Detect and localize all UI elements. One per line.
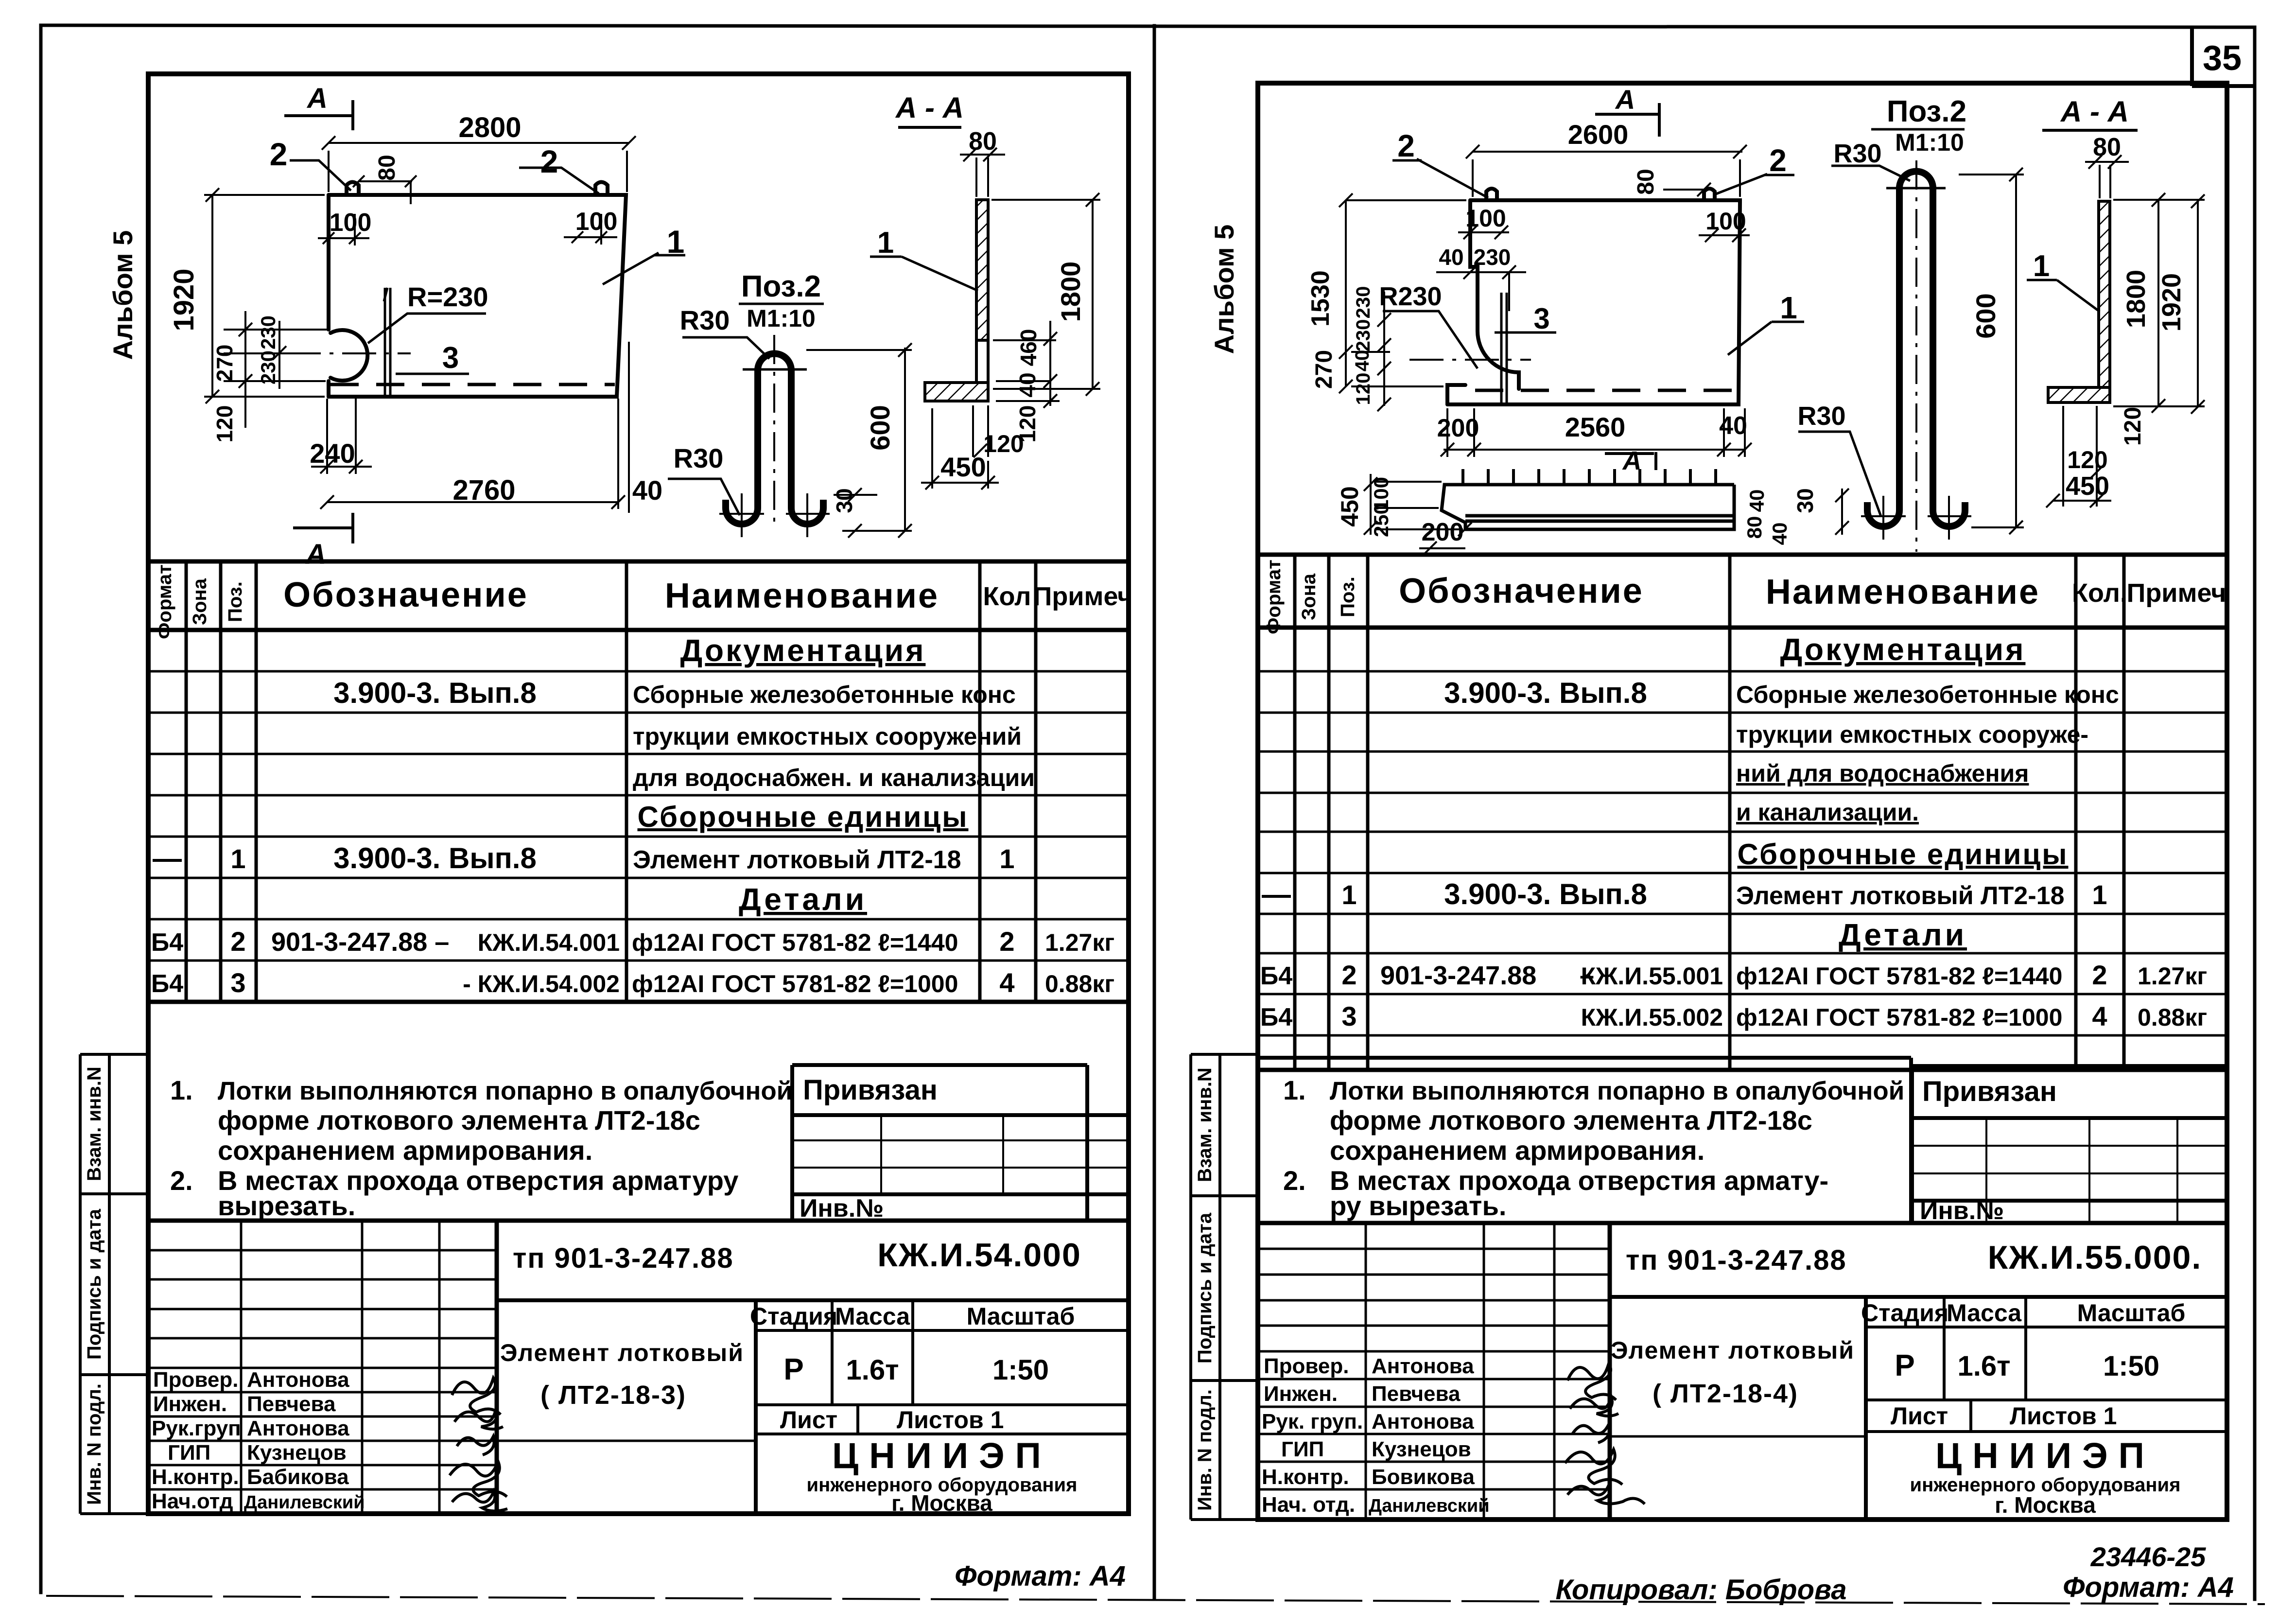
svg-text:и канализации.: и канализации. — [1736, 799, 1919, 826]
svg-text:40: 40 — [1745, 489, 1768, 512]
svg-text:2: 2 — [540, 143, 558, 179]
svg-text:Поз.2: Поз.2 — [741, 270, 821, 303]
svg-text:1.6т: 1.6т — [1957, 1350, 2010, 1382]
svg-text:230: 230 — [1353, 319, 1374, 352]
svg-text:80: 80 — [1633, 169, 1659, 194]
svg-text:форме лоткового элемента ЛТ2-: форме лоткового элемента ЛТ2-18с — [218, 1105, 700, 1136]
svg-text:Обозначение: Обозначение — [283, 576, 528, 614]
svg-text:ф12АI ГОСТ 5781-82 ℓ=1440: ф12АI ГОСТ 5781-82 ℓ=1440 — [632, 929, 958, 956]
svg-text:R30: R30 — [1797, 402, 1845, 431]
svg-text:ЦНИИЭП: ЦНИИЭП — [832, 1435, 1052, 1476]
svg-text:Певчева: Певчева — [1372, 1382, 1461, 1406]
svg-text:г. Москва: г. Москва — [1995, 1492, 2096, 1518]
svg-text:1: 1 — [877, 226, 894, 260]
svg-text:Б4: Б4 — [151, 970, 183, 998]
svg-text:0.88кг: 0.88кг — [2138, 1004, 2207, 1031]
svg-text:240: 240 — [310, 438, 355, 469]
svg-text:сохранением армирования.: сохранением армирования. — [1330, 1135, 1705, 1166]
svg-text:Поз.2: Поз.2 — [1887, 95, 1966, 128]
svg-text:( ЛТ2-18-4): ( ЛТ2-18-4) — [1652, 1379, 1798, 1408]
svg-text:ф12АI ГОСТ 5781-82 ℓ=1000: ф12АI ГОСТ 5781-82 ℓ=1000 — [1736, 1004, 2062, 1031]
svg-text:Бабикова: Бабикова — [247, 1465, 349, 1489]
svg-text:Взам. инв.N: Взам. инв.N — [1194, 1067, 1216, 1182]
svg-text:1: 1 — [1780, 290, 1797, 325]
svg-text:трукции емкостных сооружений: трукции емкостных сооружений — [633, 723, 1022, 750]
svg-text:- КЖ.И.54.002: - КЖ.И.54.002 — [463, 970, 620, 997]
svg-text:—: — — [1262, 878, 1291, 910]
svg-text:Элемент лотковый ЛТ2-18: Элемент лотковый ЛТ2-18 — [633, 846, 961, 874]
svg-text:Подпись и дата: Подпись и дата — [1194, 1212, 1216, 1363]
svg-text:1.: 1. — [1283, 1075, 1306, 1105]
svg-text:Стадия: Стадия — [1861, 1299, 1948, 1327]
svg-text:1:50: 1:50 — [2103, 1350, 2159, 1382]
svg-text:Зона: Зона — [1298, 573, 1320, 620]
svg-text:Кузнецов: Кузнецов — [247, 1441, 347, 1465]
svg-text:2.: 2. — [170, 1165, 193, 1196]
svg-text:ру вырезать.: ру вырезать. — [1330, 1190, 1506, 1221]
svg-text:Поз.: Поз. — [225, 581, 246, 622]
svg-text:Сборные железобетонные конс: Сборные железобетонные конс — [1736, 681, 2119, 708]
svg-text:Поз.: Поз. — [1337, 577, 1358, 617]
svg-text:г. Москва: г. Москва — [891, 1490, 992, 1516]
svg-text:2600: 2600 — [1568, 119, 1629, 150]
svg-text:R=230: R=230 — [407, 281, 488, 312]
svg-text:Зона: Зона — [189, 578, 210, 625]
svg-text:460: 460 — [1016, 329, 1041, 367]
svg-text:1.27кг: 1.27кг — [2138, 962, 2207, 990]
svg-text:230: 230 — [1474, 245, 1511, 270]
svg-text:Документация: Документация — [1780, 632, 2026, 667]
svg-text:Обозначение: Обозначение — [1399, 572, 1644, 611]
svg-text:Наименование: Наименование — [665, 577, 939, 615]
svg-text:( ЛТ2-18-3): ( ЛТ2-18-3) — [540, 1381, 686, 1410]
svg-text:1920: 1920 — [168, 268, 200, 331]
svg-text:ний для водоснабжения: ний для водоснабжения — [1736, 760, 2029, 787]
svg-text:1800: 1800 — [1055, 262, 1086, 322]
svg-text:2: 2 — [270, 136, 288, 172]
svg-text:А: А — [305, 539, 326, 570]
svg-text:Данилевский: Данилевский — [244, 1492, 365, 1513]
svg-text:600: 600 — [1970, 293, 2001, 338]
svg-text:3.900-3. Вып.8: 3.900-3. Вып.8 — [1444, 677, 1647, 709]
svg-text:Наименование: Наименование — [1766, 573, 2040, 612]
svg-text:120: 120 — [2120, 407, 2146, 446]
svg-text:ф12АI ГОСТ 5781-82 ℓ=1000: ф12АI ГОСТ 5781-82 ℓ=1000 — [632, 970, 958, 997]
svg-text:Взам. инв.N: Взам. инв.N — [84, 1066, 105, 1181]
svg-text:230: 230 — [257, 315, 279, 350]
svg-text:270: 270 — [1311, 350, 1337, 389]
svg-text:1:50: 1:50 — [992, 1354, 1049, 1386]
svg-text:КЖ.И.54.000: КЖ.И.54.000 — [877, 1237, 1081, 1274]
svg-text:Лист: Лист — [780, 1406, 837, 1433]
svg-text:Формат: А4: Формат: А4 — [955, 1560, 1126, 1592]
svg-text:Детали: Детали — [739, 882, 867, 917]
svg-text:Масса: Масса — [1947, 1299, 2022, 1327]
svg-text:R230: R230 — [1379, 282, 1442, 311]
svg-text:3: 3 — [1341, 1001, 1357, 1031]
svg-text:4: 4 — [999, 967, 1014, 998]
svg-text:Р: Р — [783, 1353, 803, 1386]
svg-text:Примеч: Примеч — [2127, 578, 2226, 608]
svg-text:Масштаб: Масштаб — [967, 1303, 1075, 1330]
svg-text:40: 40 — [1439, 245, 1463, 270]
svg-text:1: 1 — [2033, 249, 2050, 283]
svg-text:Кол: Кол — [983, 582, 1031, 611]
svg-text:Провер.: Провер. — [153, 1368, 238, 1392]
svg-text:2: 2 — [230, 926, 245, 957]
svg-text:40: 40 — [1768, 523, 1791, 545]
svg-text:Лотки выполняются попарно в оп: Лотки выполняются попарно в опалубочной — [1330, 1077, 1904, 1105]
svg-text:Формат: Формат — [1263, 559, 1285, 634]
svg-text:450: 450 — [2066, 472, 2109, 501]
svg-text:2.: 2. — [1283, 1165, 1306, 1196]
svg-text:сохранением армирования.: сохранением армирования. — [218, 1135, 592, 1166]
svg-text:Антонова: Антонова — [1372, 1410, 1474, 1433]
svg-text:Сборочные единицы: Сборочные единицы — [638, 801, 969, 833]
svg-text:Инв. N подл.: Инв. N подл. — [84, 1383, 105, 1505]
svg-text:Инв.№: Инв.№ — [1920, 1197, 2004, 1225]
svg-text:200: 200 — [1437, 414, 1479, 442]
svg-text:Масштаб: Масштаб — [2077, 1299, 2186, 1327]
svg-text:Нач. отд.: Нач. отд. — [1262, 1493, 1355, 1517]
svg-text:Н.контр.: Н.контр. — [1262, 1465, 1349, 1489]
svg-text:Листов 1: Листов 1 — [897, 1406, 1004, 1433]
svg-text:Документация: Документация — [680, 633, 926, 668]
svg-text:100: 100 — [1465, 205, 1506, 232]
svg-text:Кузнецов: Кузнецов — [1372, 1437, 1471, 1461]
svg-text:1920: 1920 — [2157, 273, 2186, 332]
svg-text:3.900-3. Вып.8: 3.900-3. Вып.8 — [333, 842, 537, 874]
svg-text:Инжен.: Инжен. — [153, 1392, 227, 1416]
svg-text:Элемент лотковый ЛТ2-18: Элемент лотковый ЛТ2-18 — [1736, 882, 2065, 910]
svg-text:Элемент лотковый: Элемент лотковый — [1611, 1337, 1855, 1364]
svg-text:1: 1 — [1341, 879, 1357, 910]
svg-text:А: А — [1622, 446, 1642, 475]
svg-text:Примеч: Примеч — [1033, 582, 1133, 611]
svg-text:30: 30 — [832, 488, 857, 513]
svg-text:120: 120 — [983, 430, 1024, 457]
svg-text:R30: R30 — [680, 305, 730, 335]
svg-text:901-3-247.88 –: 901-3-247.88 – — [271, 927, 449, 957]
svg-text:120: 120 — [2067, 446, 2107, 473]
svg-text:тп 901-3-247.88: тп 901-3-247.88 — [513, 1242, 734, 1274]
svg-text:1.6т: 1.6т — [846, 1354, 899, 1386]
svg-text:Кол.: Кол. — [2072, 578, 2127, 608]
svg-text:Антонова: Антонова — [247, 1368, 349, 1392]
svg-text:450: 450 — [940, 452, 986, 482]
svg-text:1.: 1. — [170, 1075, 193, 1105]
svg-text:40: 40 — [1015, 372, 1040, 397]
svg-text:Привязан: Привязан — [803, 1074, 938, 1106]
svg-text:1: 1 — [230, 843, 245, 874]
svg-text:А - А: А - А — [2060, 95, 2129, 128]
svg-text:КЖ.И.55.001: КЖ.И.55.001 — [1581, 962, 1723, 990]
svg-text:Листов 1: Листов 1 — [2010, 1402, 2117, 1430]
svg-text:тп 901-3-247.88: тп 901-3-247.88 — [1626, 1244, 1847, 1276]
svg-text:ГИП: ГИП — [1281, 1437, 1324, 1461]
svg-text:Детали: Детали — [1839, 917, 1967, 952]
svg-text:901-3-247.88: 901-3-247.88 — [1380, 961, 1536, 990]
svg-text:40: 40 — [632, 475, 662, 506]
svg-text:2560: 2560 — [1565, 412, 1626, 442]
svg-text:Б4: Б4 — [1260, 962, 1292, 990]
svg-text:80: 80 — [2093, 133, 2121, 161]
svg-text:2: 2 — [1341, 960, 1357, 990]
svg-text:форме лоткового элемента ЛТ2-1: форме лоткового элемента ЛТ2-18с — [1330, 1105, 1812, 1136]
svg-text:ЦНИИЭП: ЦНИИЭП — [1935, 1435, 2155, 1476]
svg-text:Антонова: Антонова — [247, 1416, 349, 1440]
svg-text:4: 4 — [2092, 1001, 2107, 1031]
svg-text:ГИП: ГИП — [168, 1441, 210, 1465]
svg-text:Элемент лотковый: Элемент лотковый — [500, 1339, 744, 1366]
svg-text:3: 3 — [1533, 302, 1549, 335]
svg-text:Лотки выполняются попарно в оп: Лотки выполняются попарно в опалубочной — [218, 1077, 792, 1105]
svg-text:—: — — [153, 842, 182, 874]
svg-text:100: 100 — [330, 209, 372, 237]
svg-text:Лист: Лист — [1891, 1402, 1948, 1430]
svg-text:Певчева: Певчева — [247, 1392, 336, 1416]
svg-text:230: 230 — [1353, 286, 1374, 319]
svg-text:2: 2 — [1397, 128, 1415, 163]
svg-text:Инв. N подл.: Инв. N подл. — [1194, 1389, 1216, 1511]
svg-text:Стадия: Стадия — [750, 1303, 837, 1330]
svg-text:2: 2 — [2092, 960, 2107, 990]
svg-text:Копировал: Боброва: Копировал: Боброва — [1555, 1574, 1846, 1606]
svg-text:Бовикова: Бовикова — [1372, 1465, 1475, 1489]
svg-text:1.27кг: 1.27кг — [1045, 929, 1114, 956]
svg-text:Нач.отд: Нач.отд — [152, 1489, 233, 1513]
svg-text:120: 120 — [212, 405, 237, 443]
svg-text:Инв.№: Инв.№ — [800, 1194, 884, 1223]
svg-text:Рук. груп.: Рук. груп. — [1262, 1410, 1363, 1433]
svg-text:270: 270 — [212, 345, 237, 382]
svg-text:КЖ.И.55.002: КЖ.И.55.002 — [1581, 1004, 1723, 1031]
svg-text:Б4: Б4 — [1260, 1003, 1292, 1031]
svg-text:2: 2 — [1769, 143, 1787, 178]
svg-text:23446-25: 23446-25 — [2090, 1541, 2207, 1572]
svg-text:Сборочные единицы: Сборочные единицы — [1738, 838, 2069, 871]
svg-text:100: 100 — [575, 208, 618, 236]
svg-text:Формат: А4: Формат: А4 — [2063, 1572, 2234, 1603]
svg-text:1800: 1800 — [2122, 270, 2151, 328]
svg-text:200: 200 — [1422, 518, 1464, 546]
svg-text:Сборные железобетонные конс: Сборные железобетонные конс — [633, 681, 1016, 708]
svg-text:120: 120 — [1353, 373, 1374, 405]
svg-text:1: 1 — [2092, 879, 2107, 910]
svg-text:для водоснабжен. и канализации: для водоснабжен. и канализации — [633, 764, 1035, 791]
svg-text:Масса: Масса — [835, 1303, 910, 1330]
svg-text:А - А: А - А — [895, 91, 964, 124]
svg-text:ф12АI ГОСТ 5781-82 ℓ=1440: ф12АI ГОСТ 5781-82 ℓ=1440 — [1736, 962, 2062, 990]
svg-text:А: А — [1615, 84, 1635, 115]
svg-text:2: 2 — [999, 926, 1014, 957]
svg-text:100: 100 — [1705, 208, 1746, 235]
svg-text:Провер.: Провер. — [1264, 1354, 1349, 1378]
svg-text:Б4: Б4 — [151, 928, 183, 957]
svg-text:Данилевский: Данилевский — [1369, 1496, 1490, 1516]
svg-text:3: 3 — [442, 341, 459, 375]
svg-text:600: 600 — [865, 405, 895, 450]
svg-text:R30: R30 — [674, 443, 724, 473]
svg-text:М1:10: М1:10 — [1895, 129, 1964, 156]
svg-text:Привязан: Привязан — [1922, 1076, 2057, 1107]
svg-text:Рук.груп: Рук.груп — [152, 1416, 241, 1440]
svg-text:40: 40 — [1352, 350, 1373, 372]
svg-text:450: 450 — [1336, 486, 1363, 526]
svg-text:Формат: Формат — [154, 564, 175, 639]
svg-text:3.900-3. Вып.8: 3.900-3. Вып.8 — [333, 677, 537, 709]
svg-text:80: 80 — [374, 155, 400, 180]
svg-text:Подпись и дата: Подпись и дата — [84, 1208, 105, 1360]
svg-text:80: 80 — [1743, 516, 1766, 539]
svg-text:Альбом 5: Альбом 5 — [107, 230, 138, 360]
svg-text:Н.контр.: Н.контр. — [152, 1465, 239, 1489]
svg-text:30: 30 — [1792, 488, 1818, 513]
svg-text:Альбом 5: Альбом 5 — [1209, 225, 1239, 354]
svg-text:Антонова: Антонова — [1372, 1354, 1474, 1378]
svg-text:R30: R30 — [1833, 139, 1881, 168]
svg-text:3: 3 — [230, 967, 245, 998]
svg-text:1530: 1530 — [1306, 270, 1335, 327]
svg-text:А: А — [306, 83, 328, 114]
svg-text:М1:10: М1:10 — [747, 305, 816, 332]
svg-text:Р: Р — [1895, 1349, 1914, 1382]
svg-text:вырезать.: вырезать. — [218, 1190, 355, 1221]
svg-text:КЖ.И.54.001: КЖ.И.54.001 — [478, 929, 620, 956]
svg-text:0.88кг: 0.88кг — [1045, 970, 1114, 997]
svg-text:КЖ.И.55.000.: КЖ.И.55.000. — [1988, 1239, 2202, 1276]
svg-text:Инжен.: Инжен. — [1264, 1382, 1338, 1406]
svg-text:1: 1 — [999, 843, 1014, 874]
svg-text:2800: 2800 — [458, 112, 521, 143]
svg-text:35: 35 — [2203, 39, 2242, 78]
svg-text:3.900-3. Вып.8: 3.900-3. Вып.8 — [1444, 878, 1647, 910]
svg-text:трукции емкостных сооруже-: трукции емкостных сооруже- — [1736, 721, 2088, 748]
